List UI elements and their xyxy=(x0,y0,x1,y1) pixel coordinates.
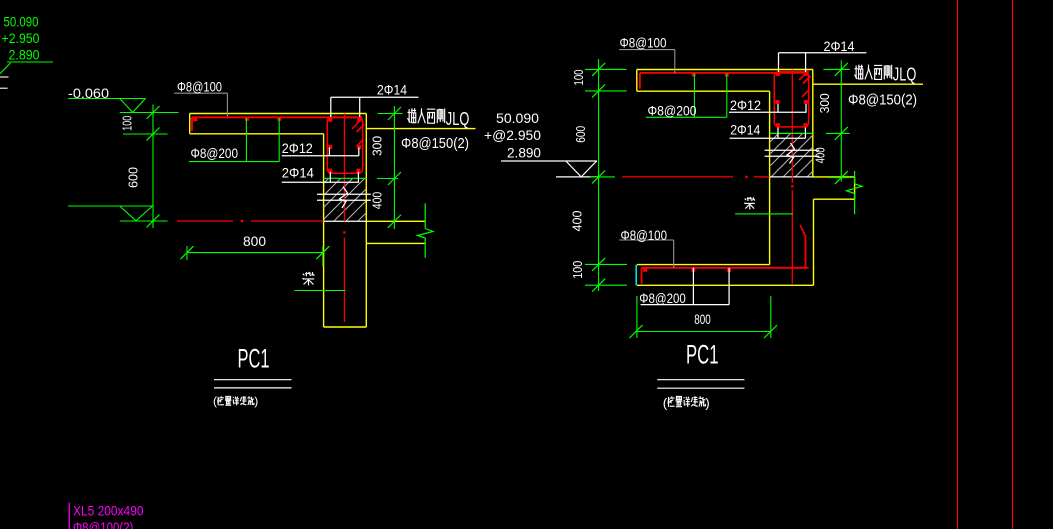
right phi8@200 underline (green) xyxy=(646,116,727,118)
svg-text:800: 800 xyxy=(694,311,711,327)
right break line lower (green) xyxy=(854,194,856,215)
svg-text:JLQ: JLQ xyxy=(893,64,917,85)
left column bottom edge (yellow) xyxy=(324,326,367,328)
right hatch bottom white line xyxy=(770,176,813,178)
svg-text:800: 800 xyxy=(243,233,266,249)
svg-text:300: 300 xyxy=(817,93,832,113)
bent-down bar (red) xyxy=(805,236,807,268)
svg-text:400: 400 xyxy=(370,192,385,210)
right label: anchor into both sides JLQ (Chinese) xyxy=(854,65,863,80)
right beam bottom edge (yellow) xyxy=(814,198,855,200)
lower elevation triangle (green) xyxy=(120,206,153,221)
svg-text:2Φ12: 2Φ12 xyxy=(282,140,313,156)
left slab rebar end hook (red) xyxy=(191,117,193,131)
lower slab distribution bar 2 (white) xyxy=(728,268,730,305)
axis line dot xyxy=(745,176,747,178)
lower slab distribution bar (white) xyxy=(692,268,694,305)
right yellow JLQ wall line xyxy=(813,83,923,85)
800 extension left xyxy=(636,296,638,338)
dim tick xyxy=(181,246,194,259)
right lower slab rebar (red) xyxy=(642,267,809,269)
rebar dot xyxy=(725,72,729,76)
right floor axis line seg2 (red) xyxy=(754,176,770,178)
dim tick xyxy=(835,63,848,76)
label: beam (liang) left detail xyxy=(303,272,315,286)
right break symbol bottom line xyxy=(765,155,820,157)
dim extension xyxy=(829,177,852,179)
dim tick xyxy=(764,325,777,338)
right stirrup mid hook slash xyxy=(802,91,808,98)
right top 2phi14 underline xyxy=(779,52,867,54)
2phi12 leader tick 2 xyxy=(358,148,360,156)
svg-text:100: 100 xyxy=(570,261,585,279)
svg-text:100: 100 xyxy=(120,116,135,131)
green elevation underline xyxy=(7,61,53,63)
white mark upper at left edge xyxy=(0,76,9,78)
-0.060 level line (green) xyxy=(120,112,179,114)
2phi14 leader underline xyxy=(282,181,359,183)
rebar dot xyxy=(691,268,695,272)
beam break zigzag (green) xyxy=(418,229,434,239)
svg-text:Φ8@100(2): Φ8@100(2) xyxy=(73,520,134,529)
svg-text:PC1: PC1 xyxy=(238,344,270,374)
right stirrup hook slash 2 xyxy=(803,76,811,84)
svg-text:50.090: 50.090 xyxy=(496,110,539,126)
svg-text:(: ( xyxy=(213,394,217,408)
svg-text:Φ8@200: Φ8@200 xyxy=(191,145,239,161)
right lower slab top edge (yellow) xyxy=(637,264,770,266)
-0.060 elevation triangle (green) xyxy=(120,99,146,113)
stirrup mid bar dot xyxy=(357,145,361,149)
stirrup corner bar dot xyxy=(328,118,332,122)
svg-text:2Φ14: 2Φ14 xyxy=(730,122,760,138)
right break zigzag (green) xyxy=(847,184,863,194)
lower level line (green) xyxy=(120,220,168,222)
svg-text:2.890: 2.890 xyxy=(9,47,40,62)
right beam label underline (green) xyxy=(735,213,793,215)
right 2phi12 underline xyxy=(729,111,807,113)
right detail right dim line (green) xyxy=(840,60,842,181)
right slab distribution bar 2 (green) xyxy=(726,74,728,118)
right lower slab bottom edge (yellow) xyxy=(637,284,814,286)
stirrup hook slash 2 xyxy=(357,125,365,133)
right 2phi14 underline xyxy=(730,137,806,139)
right label: beam (liang) xyxy=(744,197,755,209)
tall red vertical line 2 xyxy=(1012,0,1014,529)
dim tick xyxy=(388,107,401,120)
dim tick xyxy=(592,279,605,292)
right 2phi14 tick xyxy=(777,128,779,139)
800 dim extension right xyxy=(322,247,324,267)
center line dot xyxy=(343,231,345,233)
right hatch top line (green) xyxy=(770,132,813,134)
break symbol bottom line xyxy=(317,199,371,201)
top 2phi14 leader drop xyxy=(330,97,332,117)
svg-text:-0.060: -0.060 xyxy=(68,85,109,101)
svg-text:Φ8@150(2): Φ8@150(2) xyxy=(401,136,469,152)
right slab distribution bar (green) xyxy=(693,74,695,118)
rebar dot xyxy=(277,117,281,121)
svg-text:2Φ14: 2Φ14 xyxy=(824,38,855,54)
rebar dot xyxy=(193,117,197,121)
mid elevation underline xyxy=(501,160,597,162)
dim extension xyxy=(378,113,403,115)
stirrup mid hook slash xyxy=(357,140,364,147)
right column right edge upper (yellow) xyxy=(812,70,814,177)
2phi12 leader underline xyxy=(282,155,359,157)
left hatch bottom white line xyxy=(323,220,366,222)
left column right edge (yellow) xyxy=(365,114,367,328)
svg-text:XL5 200x490: XL5 200x490 xyxy=(73,504,144,519)
right title underline 2 xyxy=(657,387,744,389)
stirrup corner bar dot xyxy=(357,118,361,122)
title underline 1 xyxy=(214,379,292,381)
svg-text:PC1: PC1 xyxy=(686,339,719,369)
lower phi8@100 underline (gray) xyxy=(619,239,674,241)
right slab left edge (yellow) xyxy=(636,70,638,92)
stirrup dot xyxy=(776,72,780,76)
right phi8@100 underline (gray) xyxy=(619,49,675,51)
dim extension xyxy=(377,178,398,180)
lower phi8@200 underline (white) xyxy=(641,304,730,306)
svg-text:100: 100 xyxy=(571,70,586,86)
svg-text:2Φ12: 2Φ12 xyxy=(730,97,761,113)
2phi14 leader tick 2 xyxy=(357,172,359,182)
right 2phi14 tick 2 xyxy=(804,128,806,139)
right break symbol zigzag xyxy=(787,143,795,164)
svg-text:): ) xyxy=(254,394,258,408)
left column center line lower (red) xyxy=(343,238,345,323)
right title underline 1 xyxy=(657,379,744,381)
right top 2phi14 drop xyxy=(778,53,780,72)
slab distribution bar 2 (green) xyxy=(278,118,280,162)
-0.060 underline (green) xyxy=(68,98,146,100)
stirrup mid bar dot xyxy=(328,145,332,149)
svg-text:300: 300 xyxy=(370,136,385,156)
dim extension xyxy=(823,68,850,70)
dim extension xyxy=(585,284,627,286)
left column center line upper (red) xyxy=(343,114,345,222)
svg-text:(: ( xyxy=(663,395,668,410)
dim tick xyxy=(388,215,401,228)
dim tick xyxy=(147,106,160,119)
right slab top edge (yellow) xyxy=(637,69,813,71)
dim extension at y=134 xyxy=(123,133,168,135)
right column right edge lower (yellow) xyxy=(813,199,815,285)
mid elevation level line xyxy=(556,176,598,178)
dim extension xyxy=(585,68,627,70)
left floor axis line seg2 (red) xyxy=(251,220,324,222)
break symbol zigzag xyxy=(340,187,348,209)
svg-text:400: 400 xyxy=(812,147,827,163)
rebar dot xyxy=(643,268,647,272)
svg-text:Φ8@200: Φ8@200 xyxy=(639,290,686,306)
green elevation triangle edge (cut off) xyxy=(0,63,11,74)
right floor axis line seg1 (red) xyxy=(622,176,733,178)
svg-text:Φ8@100: Φ8@100 xyxy=(621,227,668,243)
hatch top line (green) xyxy=(324,177,367,179)
dim tick xyxy=(147,128,160,141)
right column center line upper (red) xyxy=(791,70,793,184)
stirrup corner bar dot xyxy=(328,169,332,173)
mid elevation triangle (white) xyxy=(566,161,597,177)
top 2phi14 leader drop 2 xyxy=(359,97,361,117)
dim tick xyxy=(835,127,848,140)
right slab rebar end hook (red) xyxy=(639,73,641,89)
right beam right edge (yellow) xyxy=(854,177,856,199)
left floor axis line seg1 (red) xyxy=(177,220,233,222)
axis line dot xyxy=(241,220,243,222)
beam break line lower (green) xyxy=(424,238,426,258)
tall red vertical line 1 xyxy=(957,0,959,529)
lower elevation underline (green) xyxy=(68,205,153,207)
svg-text:2.890: 2.890 xyxy=(507,145,541,161)
rebar dot xyxy=(727,268,731,272)
left slab bottom edge (yellow) xyxy=(190,133,324,135)
svg-text:JLQ: JLQ xyxy=(446,108,470,129)
dim extension xyxy=(590,176,615,178)
lower rebar end hook (red) xyxy=(641,268,643,284)
right detail left dim line (green) xyxy=(598,59,600,291)
right slab bottom edge (yellow) xyxy=(637,90,770,92)
phi8@200 leader underline (green) xyxy=(189,161,279,163)
label: anchor into both sides JLQ (Chinese) xyxy=(407,108,416,123)
slab distribution bar (green) xyxy=(245,118,247,162)
stirrup dot xyxy=(804,123,808,127)
right phi8@100 drop (gray) xyxy=(674,50,676,73)
stirrup hook slash xyxy=(352,119,362,129)
left detail right dim line (green) xyxy=(393,106,395,229)
lower phi8@100 drop (gray) xyxy=(673,240,675,268)
hatch pattern of left wall section xyxy=(265,165,450,230)
right column left edge (yellow) xyxy=(769,91,771,264)
dim extension xyxy=(585,90,627,92)
right slab top rebar (red) xyxy=(640,72,809,74)
rebar dot xyxy=(692,72,696,76)
title underline 2 xyxy=(214,387,292,389)
right top 2phi14 drop 2 xyxy=(805,53,807,72)
yellow JLQ wall line xyxy=(366,128,475,130)
bent bar hook slash (red) xyxy=(800,225,806,236)
dim tick xyxy=(592,170,605,183)
stirrup dot xyxy=(804,72,808,76)
svg-text:50.090: 50.090 xyxy=(4,14,39,29)
2phi12 leader tick xyxy=(328,148,330,156)
stirrup dot xyxy=(804,100,808,104)
svg-text:400: 400 xyxy=(570,211,585,232)
left slab top edge (yellow) xyxy=(190,113,367,115)
dim extension xyxy=(585,263,627,265)
svg-text:Φ8@200: Φ8@200 xyxy=(648,102,697,118)
left beam bottom edge (yellow) xyxy=(366,242,425,244)
left slab left edge (yellow) xyxy=(189,114,191,134)
dim tick xyxy=(630,325,643,338)
right break line upper (green) xyxy=(854,171,856,184)
hatch pattern of right wall section xyxy=(715,120,888,185)
dim tick xyxy=(835,171,848,184)
rebar dot xyxy=(245,117,249,121)
left beam top edge (yellow) xyxy=(366,220,425,222)
800 dim line (green) xyxy=(187,252,323,254)
dim tick xyxy=(388,172,401,185)
right column center line lower (red) xyxy=(791,190,793,284)
svg-text:Φ8@100: Φ8@100 xyxy=(177,78,222,94)
stirrup dot xyxy=(776,123,780,127)
svg-text:2Φ14: 2Φ14 xyxy=(282,165,314,181)
dim tick xyxy=(316,246,329,259)
right break symbol top line xyxy=(765,149,820,151)
dim tick xyxy=(147,215,160,228)
stirrup corner bar dot xyxy=(356,169,360,173)
svg-text:600: 600 xyxy=(573,126,588,143)
dim tick xyxy=(592,84,605,97)
top 2phi14 leader underline xyxy=(331,96,419,98)
svg-text:Φ8@100: Φ8@100 xyxy=(620,35,667,51)
right column stirrup (red) xyxy=(774,72,808,127)
center line dot xyxy=(791,185,793,187)
right stirrup hook slash xyxy=(799,71,809,80)
800 extension right xyxy=(770,296,772,338)
right 2phi12 tick 2 xyxy=(805,104,807,112)
right beam top edge (yellow) xyxy=(813,176,855,178)
break symbol top line xyxy=(317,193,371,195)
svg-text:): ) xyxy=(705,395,710,410)
left column stirrup (red) xyxy=(327,118,362,174)
stirrup dot xyxy=(776,100,780,104)
dim extension xyxy=(826,132,850,134)
white mark lower at left edge xyxy=(0,87,8,89)
left slab top rebar (red) xyxy=(192,116,363,118)
phi8@100 leader underline (gray) xyxy=(174,92,227,94)
svg-text:+@2.950: +@2.950 xyxy=(484,127,541,143)
svg-text:Φ8@150(2): Φ8@150(2) xyxy=(848,93,917,109)
dim tick xyxy=(592,258,605,271)
right 800 dim line (green) xyxy=(636,331,771,333)
left column left edge (yellow) xyxy=(323,134,325,327)
left dim line x=153 (green) xyxy=(152,105,154,229)
svg-text:2Φ14: 2Φ14 xyxy=(377,82,407,98)
dim tick xyxy=(592,63,605,76)
svg-text:600: 600 xyxy=(126,167,141,188)
right 2phi12 tick xyxy=(777,104,779,112)
magenta separator bar xyxy=(68,503,70,529)
beam break line upper (green) xyxy=(424,203,426,228)
800 dim extension left xyxy=(186,246,188,260)
beam label underline (green) xyxy=(295,290,346,292)
2phi14 leader tick xyxy=(329,172,331,182)
phi8@100 leader drop (gray) xyxy=(226,93,228,116)
right lower slab left edge (cyan) xyxy=(635,265,637,286)
svg-text:+2.950: +2.950 xyxy=(2,31,40,46)
